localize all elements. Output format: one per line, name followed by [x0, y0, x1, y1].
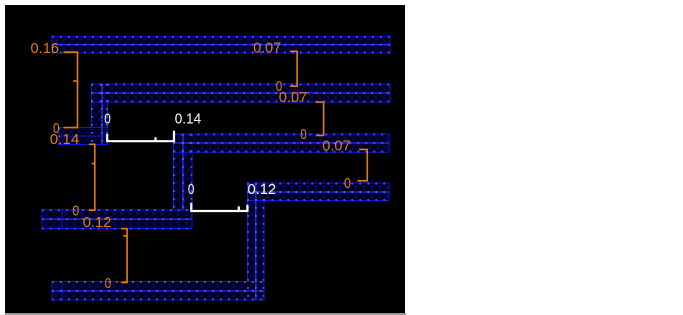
svg-text:0.14: 0.14	[175, 111, 202, 128]
svg-text:0.14: 0.14	[50, 131, 79, 148]
svg-text:0.07: 0.07	[279, 89, 308, 106]
svg-text:0.07: 0.07	[253, 39, 281, 56]
svg-text:0: 0	[188, 181, 195, 198]
svg-text:0: 0	[344, 175, 351, 192]
svg-text:0: 0	[104, 111, 111, 128]
svg-text:0.16: 0.16	[31, 40, 60, 57]
svg-text:0.07: 0.07	[322, 137, 350, 154]
svg-text:0: 0	[72, 203, 79, 220]
svg-text:0: 0	[300, 126, 307, 143]
svg-text:0.12: 0.12	[248, 181, 277, 198]
svg-text:0: 0	[105, 275, 112, 292]
svg-text:0.12: 0.12	[83, 214, 112, 231]
